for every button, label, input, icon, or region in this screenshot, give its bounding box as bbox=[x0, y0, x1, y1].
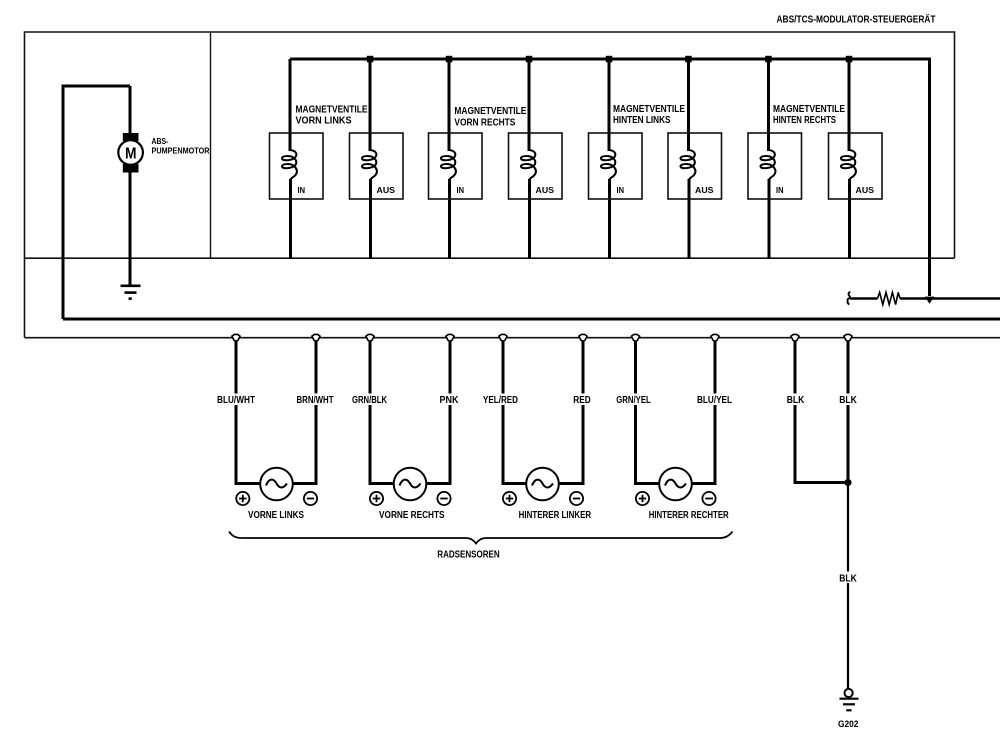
label BLK (right) bbox=[838, 394, 859, 407]
solenoid valve IN (vorn links): coil bbox=[282, 150, 297, 180]
outer control-unit box bbox=[25, 32, 1000, 338]
wire BLU/YEL bbox=[714, 341, 717, 485]
svg-text:MAGNETVENTILE: MAGNETVENTILE bbox=[454, 106, 526, 117]
solenoid valve IN (hinten links): wire bbox=[608, 59, 612, 258]
ground G202 bbox=[840, 689, 859, 710]
svg-text:BLK: BLK bbox=[839, 574, 857, 585]
wire BLK (right) bbox=[847, 341, 850, 483]
plus terminal (vorne rechts) bbox=[370, 492, 383, 505]
solenoid valve IN (vorn links): wire bbox=[289, 59, 293, 258]
svg-text:GRN/BLK: GRN/BLK bbox=[352, 395, 388, 406]
minus terminal (hinterer linker) bbox=[570, 492, 583, 505]
solenoid valve IN (vorn rechts): wire bbox=[448, 59, 452, 258]
svg-text:YEL/RED: YEL/RED bbox=[483, 395, 518, 406]
svg-text:AUS: AUS bbox=[377, 185, 396, 195]
svg-text:GRN/YEL: GRN/YEL bbox=[616, 395, 651, 406]
label RED bbox=[570, 394, 596, 407]
svg-text:G202: G202 bbox=[838, 719, 859, 730]
junction arrow at resistor node bbox=[925, 297, 934, 304]
svg-text:HINTERER LINKER: HINTERER LINKER bbox=[519, 510, 592, 521]
svg-text:PNK: PNK bbox=[440, 395, 460, 406]
label BLU/WHT bbox=[215, 394, 258, 407]
svg-text:ABS/TCS-MODULATOR-STEUERGERÄT: ABS/TCS-MODULATOR-STEUERGERÄT bbox=[777, 13, 936, 26]
sensor hinterer linker bbox=[502, 468, 585, 501]
plus terminal (hinterer linker) bbox=[503, 492, 516, 505]
solenoid valve AUS (vorn links): coil bbox=[362, 150, 377, 180]
sensor vorne links bbox=[235, 468, 318, 501]
solenoid valve AUS (hinten rechts): coil bbox=[841, 150, 856, 180]
label AUS (hinten links) bbox=[695, 185, 714, 195]
solenoid valve AUS (vorn rechts): wire bbox=[528, 59, 532, 258]
sensor hinterer rechter bbox=[634, 468, 717, 501]
solenoid valve IN (hinten rechts): coil bbox=[760, 150, 775, 180]
wire: hook to resistor bbox=[850, 297, 878, 300]
svg-text:BLK: BLK bbox=[787, 395, 805, 406]
ground (pump motor) bbox=[121, 286, 141, 299]
label IN (vorn rechts) bbox=[457, 185, 465, 195]
motor ABS-Pumpenmotor bbox=[118, 133, 143, 173]
solenoid valve IN (hinten rechts): box bbox=[748, 133, 802, 199]
wire: motor to ground bbox=[129, 172, 132, 285]
svg-text:M: M bbox=[125, 145, 137, 162]
label AUS (vorn links) bbox=[377, 185, 396, 195]
wire RED bbox=[582, 341, 585, 485]
wire GRN/BLK bbox=[369, 341, 372, 485]
label IN (vorn links) bbox=[298, 185, 306, 195]
wire: motor top lead bbox=[129, 86, 132, 135]
label IN (hinten links) bbox=[617, 185, 625, 195]
solenoid valve AUS (vorn rechts): coil bbox=[521, 150, 536, 180]
label VORNE RECHTS bbox=[379, 510, 445, 521]
svg-text:ABS-: ABS- bbox=[152, 136, 169, 146]
solenoid valve IN (vorn rechts): box bbox=[429, 133, 483, 199]
svg-text:VORN LINKS: VORN LINKS bbox=[296, 116, 352, 127]
svg-text:AUS: AUS bbox=[695, 185, 714, 195]
plus terminal (hinterer rechter) bbox=[636, 492, 649, 505]
svg-text:IN: IN bbox=[457, 185, 465, 195]
wire BRN/WHT bbox=[315, 341, 318, 485]
svg-text:HINTEN RECHTS: HINTEN RECHTS bbox=[773, 115, 836, 126]
wire BLK to ground bbox=[847, 483, 849, 690]
svg-text:MAGNETVENTILE: MAGNETVENTILE bbox=[296, 105, 368, 116]
wire BLU/WHT bbox=[235, 341, 238, 485]
solenoid valve IN (hinten rechts): wire bbox=[767, 59, 771, 258]
label ABS/TCS-MODULATOR-STEUERGERAET bbox=[777, 13, 936, 26]
sensor vorne rechts bbox=[369, 468, 452, 501]
svg-text:RED: RED bbox=[573, 395, 591, 406]
svg-text:VORNE RECHTS: VORNE RECHTS bbox=[379, 510, 445, 521]
svg-text:VORNE LINKS: VORNE LINKS bbox=[248, 510, 304, 521]
solenoid valve IN (hinten links): coil bbox=[601, 150, 616, 180]
label BLK (left) bbox=[785, 394, 806, 407]
label BLU/YEL bbox=[694, 394, 736, 407]
label BRN/WHT bbox=[294, 394, 336, 407]
label GRN/YEL bbox=[614, 394, 657, 407]
label MAGNETVENTILE HINTEN RECHTS bbox=[773, 104, 845, 126]
label HINTERER RECHTER bbox=[649, 510, 730, 521]
wire: ground bus to right edge bbox=[63, 318, 1000, 321]
plus terminal (vorne links) bbox=[236, 492, 249, 505]
svg-text:BLU/WHT: BLU/WHT bbox=[217, 395, 255, 406]
wire PNK bbox=[449, 341, 452, 485]
wire GRN/YEL bbox=[634, 341, 637, 485]
svg-text:MAGNETVENTILE: MAGNETVENTILE bbox=[773, 104, 845, 115]
label HINTERER LINKER bbox=[519, 510, 592, 521]
label VORNE LINKS bbox=[248, 510, 304, 521]
svg-text:HINTEN LINKS: HINTEN LINKS bbox=[613, 115, 671, 126]
solenoid valve AUS (hinten links): box bbox=[668, 133, 722, 199]
svg-text:AUS: AUS bbox=[536, 185, 555, 195]
solenoid valve AUS (hinten links): coil bbox=[680, 150, 695, 180]
svg-text:VORN RECHTS: VORN RECHTS bbox=[454, 118, 515, 129]
inner divider line bbox=[210, 32, 212, 258]
solenoid valve AUS (hinten rechts): box bbox=[829, 133, 883, 199]
svg-text:BRN/WHT: BRN/WHT bbox=[297, 395, 334, 406]
wire YEL/RED bbox=[502, 341, 505, 485]
minus terminal (vorne rechts) bbox=[437, 492, 450, 505]
junction dots on bus bbox=[367, 56, 853, 63]
label AUS (hinten rechts) bbox=[856, 185, 875, 195]
minus terminal (hinterer rechter) bbox=[702, 492, 715, 505]
svg-text:AUS: AUS bbox=[856, 185, 875, 195]
wire: resistor to right edge bbox=[900, 297, 1000, 300]
solenoid valve AUS (hinten links): wire bbox=[687, 59, 691, 258]
label YEL/RED bbox=[482, 394, 524, 407]
CONNECTOR PINS on bottom edge bbox=[232, 334, 852, 341]
svg-text:IN: IN bbox=[617, 185, 625, 195]
svg-text:BLU/YEL: BLU/YEL bbox=[697, 395, 732, 406]
solenoid valve AUS (vorn links): box bbox=[350, 133, 404, 199]
connector hook bbox=[847, 292, 850, 304]
label GRN/BLK bbox=[349, 394, 391, 407]
svg-text:PUMPENMOTOR: PUMPENMOTOR bbox=[152, 146, 210, 156]
solenoid valve AUS (vorn links): wire bbox=[369, 59, 373, 258]
label IN (hinten rechts) bbox=[776, 185, 784, 195]
wire: motor feed loop bbox=[63, 86, 130, 319]
label MAGNETVENTILE VORN LINKS bbox=[296, 105, 368, 127]
label G202 bbox=[838, 719, 859, 730]
solenoid valve IN (hinten links): box bbox=[589, 133, 643, 199]
svg-text:IN: IN bbox=[298, 185, 306, 195]
solenoid valve AUS (vorn rechts): box bbox=[509, 133, 563, 199]
label PNK bbox=[437, 394, 463, 407]
label ABS-PUMPENMOTOR bbox=[152, 136, 210, 156]
solenoid valve IN (vorn rechts): coil bbox=[441, 150, 456, 180]
label RADSENSOREN bbox=[437, 550, 499, 561]
svg-text:IN: IN bbox=[776, 185, 784, 195]
wire: supply bus bbox=[290, 59, 930, 296]
label MAGNETVENTILE HINTEN LINKS bbox=[613, 104, 685, 126]
svg-text:RADSENSOREN: RADSENSOREN bbox=[437, 550, 499, 561]
minus terminal (vorne links) bbox=[304, 492, 317, 505]
brace radsensoren bbox=[229, 532, 733, 544]
junction dot BLK bbox=[844, 479, 851, 486]
svg-text:HINTERER RECHTER: HINTERER RECHTER bbox=[649, 510, 730, 521]
svg-text:MAGNETVENTILE: MAGNETVENTILE bbox=[613, 104, 685, 115]
label MAGNETVENTILE VORN RECHTS bbox=[454, 106, 526, 128]
label BLK (lower) bbox=[838, 572, 859, 585]
solenoid valve IN (vorn links): box bbox=[270, 133, 324, 199]
svg-text:BLK: BLK bbox=[839, 395, 857, 406]
resistor bbox=[878, 292, 901, 304]
solenoid valve AUS (hinten rechts): wire bbox=[848, 59, 852, 258]
label AUS (vorn rechts) bbox=[536, 185, 555, 195]
wire BLK (left) bbox=[795, 341, 848, 483]
